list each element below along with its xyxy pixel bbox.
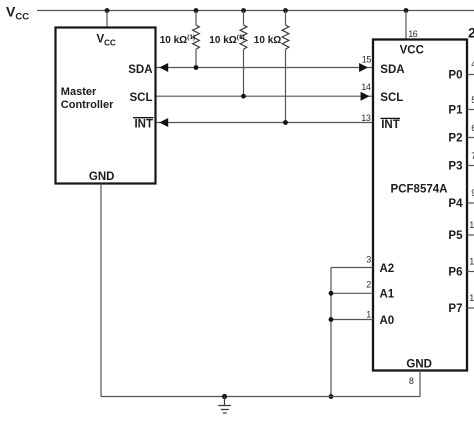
svg-text:GND: GND <box>406 359 432 371</box>
junction dot rail/R2 <box>241 8 246 13</box>
svg-text:SCL: SCL <box>130 92 153 104</box>
svg-text:P1: P1 <box>448 105 463 117</box>
svg-text:P7: P7 <box>448 303 462 315</box>
svg-text:1: 1 <box>366 309 371 319</box>
wire master GND to ground run <box>100 184 102 397</box>
arrowhead INT into master <box>159 118 168 127</box>
svg-text:P3: P3 <box>448 161 462 173</box>
resistor R3 10k pull-up INT <box>282 11 289 123</box>
wire P2 stub pin 6 <box>467 137 474 139</box>
junction dot rail/master-VCC <box>105 8 110 13</box>
arrowhead SCL into PCF8574A <box>361 92 370 101</box>
wire VCC rail <box>37 10 474 12</box>
junction dot ground symbol <box>222 394 227 399</box>
arrowhead SDA into master <box>159 63 168 72</box>
wire P6 stub pin 11 <box>467 271 474 273</box>
wire ground run <box>101 396 420 398</box>
svg-text:11: 11 <box>469 257 474 267</box>
svg-text:10: 10 <box>469 220 474 230</box>
junction dot R1/SDA <box>194 65 199 70</box>
svg-text:16: 16 <box>408 29 418 39</box>
wire INT (master to PCF8574A) <box>157 122 373 124</box>
svg-text:INT: INT <box>134 119 153 131</box>
svg-text:P6: P6 <box>448 267 462 279</box>
wire P5 stub pin 10 <box>467 234 474 236</box>
svg-text:Controller: Controller <box>61 99 114 111</box>
svg-text:INT: INT <box>381 119 400 131</box>
wire A1 pin 2 <box>331 292 373 294</box>
svg-text:SDA: SDA <box>380 64 404 76</box>
svg-text:A1: A1 <box>380 288 395 300</box>
net label VCC (top-left) <box>6 4 29 23</box>
svg-text:A2: A2 <box>380 263 395 275</box>
svg-text:8: 8 <box>409 376 414 386</box>
wire P4 stub pin 9 <box>467 202 474 204</box>
ground symbol <box>218 397 231 414</box>
svg-text:3: 3 <box>366 255 371 265</box>
svg-text:15: 15 <box>362 54 372 64</box>
svg-text:P0: P0 <box>448 70 462 82</box>
junction dot R3/INT <box>283 120 288 125</box>
junction dot R2/SCL <box>241 94 246 99</box>
wire P7 stub pin 12 <box>467 307 474 309</box>
wire master VCC pin <box>106 11 108 28</box>
wire address bus to ground <box>330 268 332 397</box>
svg-text:VCC: VCC <box>6 4 29 23</box>
wire SCL (master to PCF8574A) <box>157 95 373 97</box>
wire PCF8574A VCC pin 16 <box>405 11 407 40</box>
svg-text:Master: Master <box>61 86 97 98</box>
junction dot A0/bus <box>329 317 334 322</box>
svg-text:PCF8574A: PCF8574A <box>391 184 448 196</box>
svg-text:14: 14 <box>361 82 371 92</box>
wire A2 pin 3 <box>331 267 373 269</box>
Master Controller box U1 <box>56 28 156 184</box>
svg-text:P4: P4 <box>448 198 463 210</box>
svg-text:12: 12 <box>469 293 474 303</box>
resistor R2 10k pull-up SCL <box>240 11 247 97</box>
svg-text:2: 2 <box>366 279 371 289</box>
svg-text:10 kΩ(1): 10 kΩ(1) <box>160 34 195 46</box>
svg-text:2: 2 <box>468 24 474 40</box>
PCF8574A box U2 <box>373 40 467 371</box>
junction dot rail/R3 <box>283 8 288 13</box>
svg-text:10 kΩ: 10 kΩ <box>254 35 281 46</box>
wire P0 stub pin 4 <box>467 74 474 76</box>
wire SDA (master to PCF8574A) <box>157 67 373 69</box>
junction dot rail/PCF-VCC <box>404 8 409 13</box>
wire P1 stub pin 5 <box>467 109 474 111</box>
svg-text:A0: A0 <box>380 315 395 327</box>
junction dot rail/R1 <box>194 8 199 13</box>
svg-text:SCL: SCL <box>380 92 403 104</box>
svg-text:SDA: SDA <box>128 64 152 76</box>
svg-text:13: 13 <box>361 113 371 123</box>
svg-text:GND: GND <box>89 171 115 183</box>
arrowhead SDA into PCF8574A <box>359 63 368 72</box>
svg-text:P5: P5 <box>448 230 463 242</box>
wire P3 stub pin 7 <box>467 165 474 167</box>
svg-text:VCC: VCC <box>400 45 424 57</box>
junction dot bus/ground-run <box>329 394 334 399</box>
wire PCF8574A GND pin 8 <box>419 371 421 397</box>
resistor R1 10k pull-up SDA <box>193 11 200 68</box>
junction dot A1/bus <box>329 291 334 296</box>
wire A0 pin 1 <box>331 319 373 321</box>
svg-text:VCC: VCC <box>97 34 116 48</box>
svg-text:P2: P2 <box>448 133 462 145</box>
